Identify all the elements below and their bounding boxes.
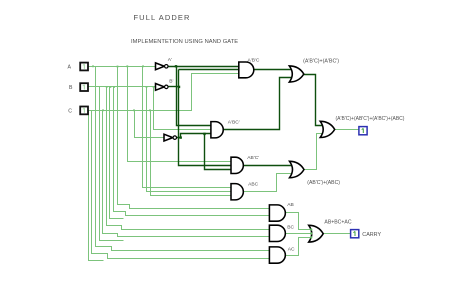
- svg-text:A'BC': A'BC': [228, 119, 240, 125]
- svg-text:IMPLEMENTETION USING NAND GATE: IMPLEMENTETION USING NAND GATE: [131, 39, 238, 45]
- svg-text:CARRY: CARRY: [362, 232, 381, 238]
- svg-text:A': A': [168, 57, 172, 63]
- svg-text:C: C: [68, 109, 72, 115]
- svg-text:ABC: ABC: [248, 182, 259, 188]
- svg-text:B': B': [169, 79, 173, 85]
- svg-text:B: B: [69, 85, 73, 91]
- svg-text:A: A: [68, 65, 72, 71]
- svg-text:FULL ADDER: FULL ADDER: [134, 13, 191, 22]
- svg-text:AC: AC: [288, 247, 295, 253]
- svg-text:AB+BC+AC: AB+BC+AC: [324, 219, 351, 225]
- svg-text:BC: BC: [287, 224, 294, 230]
- svg-text:(A'B'C)+(AB'C')+(A'BC')+(ABC): (A'B'C)+(AB'C')+(A'BC')+(ABC): [336, 116, 405, 122]
- svg-text:(AB'C')+(ABC): (AB'C')+(ABC): [307, 180, 340, 186]
- svg-text:AB'C': AB'C': [247, 155, 259, 161]
- svg-text:AB: AB: [287, 202, 294, 208]
- svg-text:A'B'C: A'B'C: [248, 57, 260, 63]
- svg-text:(A'B'C)+(A'BC'): (A'B'C)+(A'BC'): [303, 59, 339, 65]
